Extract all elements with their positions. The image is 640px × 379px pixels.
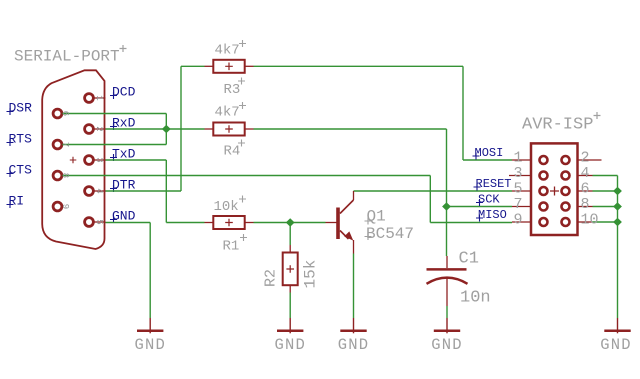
wire R3 right horizontal [254, 65, 464, 67]
resistor R1 right pin stub [245, 222, 254, 224]
connector SV1 pin 10 stub [578, 221, 593, 223]
svg-text:Q1: Q1 [367, 208, 386, 226]
connector SV1 pin 2 circle [562, 156, 570, 164]
net label GND (DB9 pin5) [110, 209, 136, 224]
svg-text:DSR: DSR [9, 101, 33, 116]
wire R2 top vertical [289, 223, 291, 246]
net label DSR [7, 101, 33, 116]
wire TxD to R1 left [166, 222, 204, 224]
connector SV1 pin 6 stub [578, 190, 593, 192]
resistor R2 name (rotated) [263, 269, 280, 287]
net label DTR [110, 178, 136, 193]
connector X1 pin 2 line [94, 128, 106, 130]
svg-text:TxD: TxD [112, 147, 136, 162]
svg-text:GND: GND [134, 336, 166, 354]
transistor Q1 emitter arrowhead [344, 231, 353, 240]
connector SV1 pin 8 circle [562, 203, 570, 211]
svg-text:R4: R4 [224, 144, 241, 160]
svg-text:GND: GND [112, 209, 136, 224]
wire DSR horizontal [62, 113, 166, 115]
svg-text:RTS: RTS [9, 132, 33, 147]
connector SV1 pin 4 stub [578, 175, 593, 177]
connector SV1 pin 1 circle [540, 156, 548, 164]
svg-text:10: 10 [581, 212, 599, 229]
connector X1 pin 3 line [94, 159, 106, 161]
net label RESET [474, 177, 512, 191]
capacitor C1 bottom pin [446, 278, 448, 306]
net label CTS [7, 163, 33, 178]
svg-text:4k7: 4k7 [215, 105, 240, 121]
junction ISP pin6 [613, 187, 622, 196]
svg-text:1: 1 [94, 95, 104, 100]
transistor Q1 base pin stub [326, 222, 338, 224]
ground symbol GND3 (under Q1 emitter) [338, 318, 370, 354]
resistor R4 value 4k7 [215, 102, 247, 121]
connector SV1 pin 6 circle [562, 187, 570, 195]
svg-text:RxD: RxD [112, 116, 136, 131]
svg-text:R3: R3 [224, 82, 241, 98]
wire ISP pin8 stub [593, 206, 618, 208]
net label RxD [110, 116, 136, 131]
resistor R2 value 15k (rotated) [302, 260, 320, 289]
svg-text:MOSI: MOSI [475, 146, 504, 160]
ground symbol GND5 (under AVR-ISP) [600, 318, 632, 354]
wire SCK to pin7 [447, 206, 513, 208]
resistor R3 name [224, 78, 246, 99]
junction ISP pin8 [613, 202, 622, 211]
wire ISP right vertical to GND [617, 176, 619, 319]
wire MOSI to pin1 [463, 159, 512, 161]
wire C1 bottom to GND [446, 306, 448, 318]
wire CTS to MISO pin9 [430, 222, 512, 224]
svg-text:4: 4 [94, 188, 104, 193]
connector X1 pin 1 line [94, 97, 106, 99]
wire TxD vertical down [165, 160, 167, 223]
resistor R2 top pin stub [289, 245, 291, 253]
resistor R3 origin cross [225, 63, 233, 71]
junction RxD/DSR/RTS/R4 [162, 125, 171, 134]
connector SV1 pin 7 stub [512, 206, 530, 208]
wire R1 right to Q1 base [254, 222, 326, 224]
connector SV1 pin 3 stub [509, 175, 530, 177]
svg-text:4: 4 [581, 165, 590, 182]
junction ISP pin10 [613, 218, 622, 227]
wire DSR-RTS vertical [165, 114, 167, 145]
net label RTS [7, 132, 33, 147]
svg-text:GND: GND [338, 336, 370, 354]
wire CTS horizontal [62, 175, 430, 177]
connector SV1 pin 8 stub [578, 206, 593, 208]
resistor R2 body [283, 253, 298, 286]
connector SV1 pin 4 circle [562, 172, 570, 180]
svg-text:CTS: CTS [9, 163, 33, 178]
ground symbol GND4 (under C1) [431, 318, 463, 354]
connector X1 pin 2 RxD circle [85, 125, 94, 134]
connector X1 pin 6 DSR circle [53, 109, 62, 118]
wire DTR to R3 left [181, 65, 205, 67]
capacitor C1 top plate [427, 268, 467, 271]
svg-text:MISO: MISO [478, 208, 507, 222]
transistor Q1 emitter slant [340, 231, 349, 240]
svg-text:RESET: RESET [476, 177, 512, 191]
net label MISO [476, 208, 507, 222]
svg-text:AVR-ISP: AVR-ISP [522, 116, 593, 135]
resistor R4 left pin stub [205, 128, 214, 130]
connector X1 pin 5 line [94, 221, 106, 223]
connector X1 DB9 body outline [42, 70, 104, 249]
resistor R1 origin cross [225, 219, 233, 227]
connector X1 pin 1 DCD circle [85, 94, 94, 103]
svg-text:DCD: DCD [112, 85, 136, 100]
svg-text:8: 8 [581, 196, 590, 213]
resistor R1 name [223, 234, 248, 255]
svg-text:10k: 10k [214, 199, 239, 215]
ground symbol GND1 (under DB9) [134, 318, 166, 354]
resistor R2 origin cross [286, 265, 294, 273]
wire R2 bottom to GND [289, 293, 291, 319]
resistor R1 body [213, 216, 244, 229]
connector X1 SERIAL-PORT label [14, 45, 127, 66]
svg-text:5: 5 [513, 181, 522, 198]
wire GND pin5 horizontal [106, 222, 151, 224]
resistor R3 left pin stub [205, 65, 214, 67]
junction SCK [442, 202, 451, 211]
connector SV1 pin 10 circle [562, 218, 570, 226]
wire DTR horizontal [106, 190, 182, 192]
wire R3 vertical down to MOSI [462, 66, 464, 160]
svg-text:4k7: 4k7 [215, 43, 240, 59]
svg-text:5: 5 [94, 219, 104, 224]
capacitor C1 bottom plate (arc) [427, 278, 468, 284]
svg-text:C1: C1 [459, 250, 479, 269]
connector SV1 pin 9 stub [512, 221, 530, 223]
svg-text:10n: 10n [460, 289, 491, 308]
svg-text:9: 9 [60, 204, 70, 209]
svg-text:GND: GND [274, 336, 306, 354]
svg-text:R1: R1 [223, 239, 240, 255]
junction R1/R2/base [286, 218, 295, 227]
svg-text:1: 1 [513, 150, 522, 167]
svg-text:GND: GND [431, 336, 463, 354]
wire emitter to GND [353, 254, 355, 319]
connector SV1 pin 3 circle [540, 172, 548, 180]
wire TxD horizontal [106, 159, 167, 161]
connector X1 origin cross [70, 157, 77, 164]
transistor Q1 emitter pin [353, 240, 355, 254]
svg-text:15k: 15k [302, 260, 320, 289]
connector X1 pin 8 CTS circle [53, 171, 62, 180]
resistor R1 left pin stub [205, 222, 214, 224]
svg-text:2: 2 [94, 126, 104, 131]
net label DCD [110, 85, 136, 100]
resistor R4 right pin stub [245, 128, 254, 130]
wire RTS horizontal [62, 144, 166, 146]
resistor R3 body [213, 60, 244, 73]
svg-text:3: 3 [513, 165, 522, 182]
connector X1 pin 4 DTR circle [85, 187, 94, 196]
svg-text:GND: GND [600, 336, 632, 354]
connector SV1 pin 2 stub [578, 159, 602, 161]
svg-text:R2: R2 [263, 269, 280, 287]
wire DTR vertical up to R3 [180, 66, 182, 191]
connector X1 pin 7 RTS circle [53, 140, 62, 149]
svg-text:3: 3 [94, 157, 104, 162]
wire ISP pin4 horizontal [593, 175, 618, 177]
net label TxD [110, 147, 136, 162]
connector SV1 body [531, 143, 578, 235]
connector SV1 AVR-ISP label [522, 112, 601, 135]
net label RI [7, 194, 25, 209]
transistor Q1 name [365, 208, 386, 226]
wire GND pin5 vertical down [149, 223, 151, 319]
ground symbol GND2 (under R2) [274, 318, 306, 354]
wire RxD to junction to R4 [106, 128, 205, 130]
svg-text:BC547: BC547 [366, 225, 414, 243]
resistor R4 origin cross [225, 125, 233, 133]
net label SCK [476, 193, 500, 207]
wire R4 right horizontal [254, 128, 447, 130]
connector SV1 pin 9 circle [540, 218, 548, 226]
svg-text:7: 7 [513, 196, 522, 213]
resistor R3 right pin stub [245, 65, 254, 67]
svg-text:SCK: SCK [478, 193, 500, 207]
svg-text:9: 9 [513, 212, 522, 229]
transistor Q1 base bar [336, 208, 340, 240]
svg-text:6: 6 [581, 181, 590, 198]
resistor R2 bottom pin stub [289, 285, 291, 292]
transistor Q1 collector slant [340, 200, 354, 214]
svg-text:DTR: DTR [112, 178, 136, 193]
connector SV1 origin cross [550, 187, 559, 196]
net label MOSI [473, 146, 504, 160]
wire ISP pin10 stub [593, 221, 618, 223]
wire ISP pin6 stub [593, 190, 618, 192]
resistor R3 value 4k7 [215, 40, 247, 59]
wire R4 vertical down to C1 [446, 129, 448, 256]
capacitor C1 top pin [446, 256, 448, 268]
svg-text:6: 6 [60, 111, 70, 116]
connector SV1 pin 7 circle [540, 203, 548, 211]
connector SV1 pin 5 stub [512, 190, 530, 192]
svg-text:SERIAL-PORT: SERIAL-PORT [14, 48, 120, 66]
resistor R1 value 10k [214, 196, 247, 216]
resistor R4 body [213, 123, 244, 136]
connector X1 pin 3 TxD circle [85, 156, 94, 165]
connector SV1 pin 1 stub [512, 159, 530, 161]
connector X1 pin 9 RI circle [53, 202, 62, 211]
connector X1 pin 5 GND circle [85, 218, 94, 227]
connector SV1 pin 5 circle [540, 187, 548, 195]
svg-text:RI: RI [9, 194, 25, 209]
transistor Q1 value BC547 [365, 225, 415, 243]
transistor Q1 collector pin [353, 191, 355, 200]
svg-text:7: 7 [60, 142, 70, 147]
wire collector to RESET pin5 [354, 190, 513, 192]
resistor R4 name [224, 140, 246, 160]
svg-text:2: 2 [581, 150, 590, 167]
connector X1 pin 4 line [94, 190, 106, 192]
wire CTS vertical down [429, 176, 431, 223]
svg-text:8: 8 [60, 173, 70, 178]
